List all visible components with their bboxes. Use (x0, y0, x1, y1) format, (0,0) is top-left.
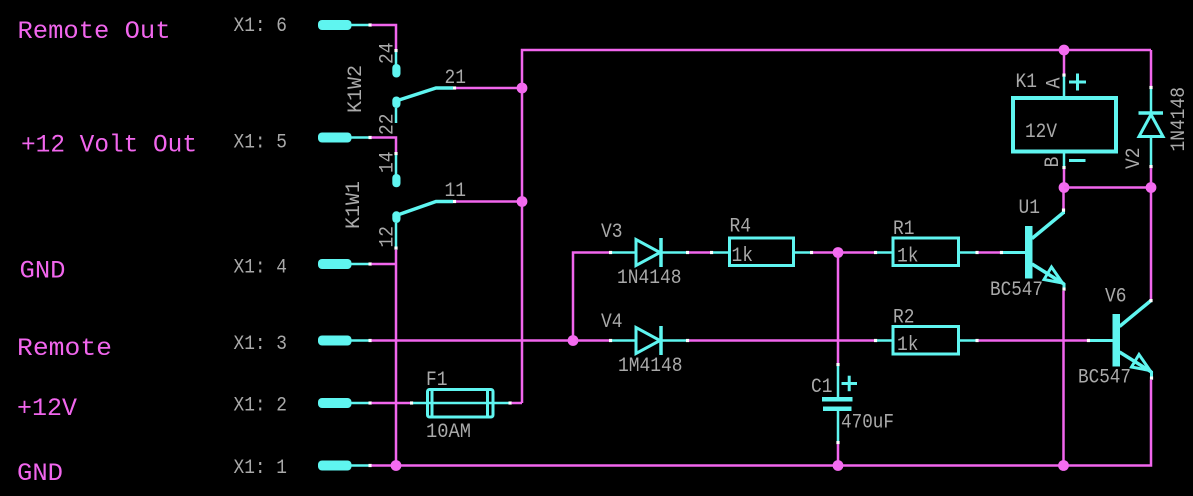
junction R4/R1/C1 (833, 247, 844, 258)
svg-text:22: 22 (377, 114, 400, 136)
svg-text:K1: K1 (1016, 71, 1038, 94)
svg-text:K1W1: K1W1 (343, 181, 366, 229)
svg-text:1k: 1k (897, 334, 919, 357)
resistor R2 (874, 327, 979, 355)
connector pin X1:1 (234, 457, 372, 480)
wire X1:5 to K1W1 pin 14 (372, 138, 397, 154)
wire node to V4 (576, 339, 609, 342)
connector pin X1:6 (234, 15, 372, 38)
wire K1 B to V2 bottom (1064, 186, 1151, 189)
relay contact K1W1 (392, 155, 456, 250)
wire X1:6 to K1W2 pin 24 (372, 25, 397, 50)
svg-text:V2: V2 (1123, 148, 1146, 170)
svg-text:BC547: BC547 (1078, 367, 1131, 390)
wire R4 to junction (813, 251, 838, 254)
wire X1:2 to fuse F1 (372, 402, 412, 405)
capacitor C1 (822, 256, 857, 466)
svg-text:11: 11 (445, 180, 467, 203)
junction Remote node (568, 335, 579, 346)
svg-text:24: 24 (377, 43, 400, 65)
svg-text:X1: 6: X1: 6 (234, 15, 288, 38)
svg-text:14: 14 (377, 152, 400, 174)
connector pin X1:3 (234, 333, 372, 356)
svg-text:A: A (1044, 77, 1067, 89)
junction at rail / 11 (517, 196, 528, 207)
svg-text:1N4148: 1N4148 (617, 267, 682, 290)
wire F1 to +12V rail (512, 402, 523, 405)
svg-text:1N4148: 1N4148 (1168, 87, 1191, 152)
diode V4 (609, 326, 689, 355)
svg-text:X1: 3: X1: 3 (234, 333, 288, 356)
svg-text:V6: V6 (1105, 286, 1127, 309)
connector pin X1:5 (234, 132, 372, 155)
junction GND / C1 (833, 460, 844, 471)
svg-text:V4: V4 (601, 311, 623, 334)
junction GND / U1 emitter (1058, 460, 1069, 471)
svg-text:21: 21 (445, 67, 467, 90)
svg-text:R1: R1 (893, 218, 915, 241)
wire R1 to U1 base (979, 251, 1002, 254)
wire K1W2 pin 21 to +12V rail (456, 87, 520, 90)
junction V2 bottom node (1146, 182, 1157, 193)
svg-text:Remote Out: Remote Out (18, 17, 171, 46)
transistor U1 (1000, 209, 1066, 291)
svg-text:B: B (1042, 157, 1065, 168)
svg-text:1k: 1k (732, 245, 754, 268)
GND bottom wire (372, 380, 1152, 466)
wire V3 to R4 (689, 251, 711, 254)
svg-text:GND: GND (17, 459, 63, 488)
svg-text:U1: U1 (1019, 197, 1041, 220)
svg-text:1k: 1k (897, 246, 919, 269)
connector pin X1:2 (234, 395, 372, 418)
svg-text:R4: R4 (730, 216, 752, 239)
diode V3 (609, 238, 689, 267)
resistor R1 (874, 238, 979, 266)
wire X1:3 to node (372, 339, 571, 342)
svg-text:R2: R2 (893, 307, 915, 330)
resistor R4 (710, 238, 813, 266)
svg-text:C1: C1 (811, 376, 833, 399)
wire R2 to V6 base (979, 339, 1089, 342)
relay coil K1 (1013, 53, 1116, 186)
junction at rail / 21 (517, 83, 528, 94)
svg-text:GND: GND (20, 257, 66, 286)
wire K1W1 pin 12 down to GND net (395, 250, 398, 466)
relay contact K1W2 (392, 52, 456, 123)
svg-text:V3: V3 (601, 221, 623, 244)
svg-text:BC547: BC547 (990, 279, 1043, 302)
connector pin X1:4 (234, 257, 372, 280)
wire V6 collector up (1150, 191, 1153, 300)
svg-text:470uF: 470uF (841, 412, 894, 435)
wire U1 emitter to GND (1062, 291, 1065, 466)
svg-text:12: 12 (377, 226, 400, 248)
svg-text:X1: 5: X1: 5 (234, 132, 288, 155)
svg-text:+12V: +12V (17, 394, 77, 423)
wire junction to R1 (838, 251, 874, 254)
wire U1 collector up (1062, 191, 1065, 209)
diode V2 (1139, 86, 1164, 185)
wire X1:4 to GND vertical (372, 263, 396, 266)
+12V rail vertical (522, 50, 1151, 403)
svg-text:F1: F1 (426, 369, 448, 392)
wire node up to V3 (573, 253, 609, 338)
wire V4 to R2 (689, 339, 874, 342)
junction K1 B node (1059, 182, 1070, 193)
svg-text:10AM: 10AM (426, 421, 471, 444)
junction GND / pin12 (391, 460, 402, 471)
svg-text:K1W2: K1W2 (345, 65, 368, 113)
junction top rail / K1 (1059, 45, 1070, 56)
transistor V6 (1087, 299, 1153, 380)
wire rail to V2 top (1150, 50, 1153, 86)
wire K1W1 pin 11 to +12V rail (456, 200, 520, 203)
svg-text:X1: 4: X1: 4 (234, 257, 288, 280)
svg-text:+12 Volt Out: +12 Volt Out (21, 131, 197, 160)
svg-text:X1: 2: X1: 2 (234, 395, 288, 418)
fuse F1 (410, 390, 512, 418)
svg-text:Remote: Remote (17, 334, 112, 363)
svg-text:X1: 1: X1: 1 (234, 457, 288, 480)
svg-text:12V: 12V (1025, 121, 1058, 144)
svg-text:1M4148: 1M4148 (618, 355, 683, 378)
